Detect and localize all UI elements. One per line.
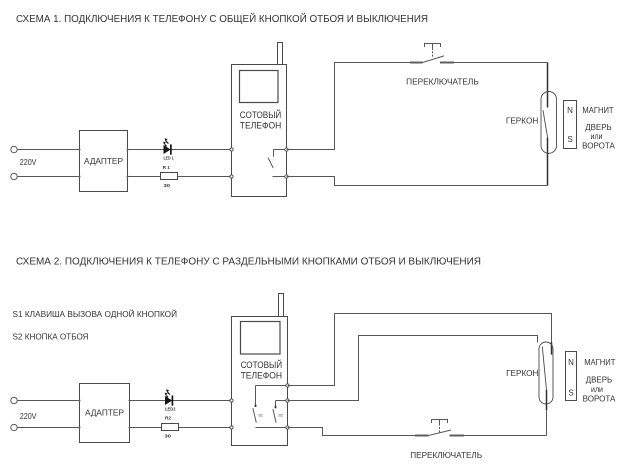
- svg-text:МАГНИТ: МАГНИТ: [584, 358, 615, 367]
- node: [230, 426, 233, 429]
- wire: [256, 427, 288, 429]
- node: [230, 399, 233, 402]
- LED D2: [165, 389, 173, 405]
- svg-text:ТЕЛЕФОН: ТЕЛЕФОН: [241, 370, 283, 380]
- svg-text:S1 КЛАВИША ВЫЗОВА ОДНОЙ КНОПКО: S1 КЛАВИША ВЫЗОВА ОДНОЙ КНОПКОЙ: [13, 310, 178, 319]
- svg-text:R 1: R 1: [163, 165, 171, 170]
- svg-text:N: N: [567, 106, 573, 115]
- svg-text:ГЕРКОН: ГЕРКОН: [506, 116, 539, 125]
- label phone 1: [240, 109, 281, 131]
- wire: [128, 149, 232, 151]
- svg-text:АДАПТЕР: АДАПТЕР: [85, 409, 124, 418]
- resistor R2: [162, 424, 179, 431]
- contact tip S2: [275, 406, 277, 409]
- phone screen 1: [240, 71, 279, 103]
- node: [286, 426, 289, 429]
- wire: [287, 63, 423, 150]
- wire: [547, 138, 549, 186]
- LED D1: [163, 138, 171, 154]
- svg-text:ВОРОТА: ВОРОТА: [583, 395, 616, 404]
- svg-text:СХЕМА 1. ПОДКЛЮЧЕНИЯ К ТЕЛЕФОН: СХЕМА 1. ПОДКЛЮЧЕНИЯ К ТЕЛЕФОНУ С ОБЩЕЙ …: [16, 12, 428, 25]
- cell phone body 2: [232, 317, 288, 446]
- wire: [415, 435, 429, 437]
- svg-text:или: или: [591, 385, 603, 394]
- label phone 2: [241, 359, 283, 381]
- node: [230, 175, 233, 178]
- svg-text:30: 30: [165, 434, 172, 439]
- terminal X2: [11, 173, 17, 179]
- wire: [547, 63, 549, 108]
- wire: [450, 435, 465, 437]
- wire: [410, 62, 423, 64]
- terminal X3: [11, 397, 17, 403]
- adapter A1: [80, 131, 128, 192]
- svg-text:СОТОВЫЙ: СОТОВЫЙ: [241, 359, 283, 370]
- label door 1: [582, 123, 615, 151]
- wire: [288, 336, 538, 401]
- wire: [288, 314, 552, 386]
- wire: [546, 390, 548, 410]
- node: [286, 399, 289, 402]
- svg-text:ГЕРКОН: ГЕРКОН: [506, 369, 539, 378]
- resistor R1: [161, 173, 178, 180]
- svg-text:N: N: [568, 358, 574, 367]
- svg-text:LED2: LED2: [165, 407, 176, 412]
- wire: [546, 404, 548, 436]
- svg-text:МАГНИТ: МАГНИТ: [582, 106, 613, 115]
- junction: [78, 399, 80, 401]
- reed capsule 1: [541, 92, 557, 154]
- node: [230, 148, 233, 151]
- switch lever 2: [429, 430, 452, 436]
- svg-text:220V: 220V: [20, 157, 37, 167]
- cell phone body 1: [232, 65, 287, 197]
- wire: [450, 435, 547, 437]
- wire: [130, 400, 232, 402]
- junction: [126, 148, 128, 150]
- junction: [78, 426, 80, 428]
- svg-text:30: 30: [164, 183, 171, 188]
- svg-text:220V: 220V: [20, 411, 37, 421]
- wire: [440, 62, 454, 64]
- wire: [130, 427, 232, 429]
- wire: [287, 177, 548, 186]
- junction: [128, 399, 130, 401]
- internal hook switch: [268, 150, 287, 177]
- pushbutton head 1: [425, 44, 441, 57]
- wire: [17, 176, 79, 178]
- node: [286, 384, 289, 387]
- wire: [17, 427, 79, 429]
- svg-text:ПЕРЕКЛЮЧАТЕЛЬ: ПЕРЕКЛЮЧАТЕЛЬ: [406, 77, 479, 86]
- junction: [78, 175, 80, 177]
- svg-text:или: или: [591, 132, 603, 141]
- wire: [551, 342, 553, 355]
- node: [285, 148, 288, 151]
- antenna 1: [278, 43, 283, 65]
- svg-text:S2 КНОПКА ОТБОЯ: S2 КНОПКА ОТБОЯ: [13, 333, 89, 342]
- wire: [17, 149, 79, 151]
- wire: [128, 176, 232, 178]
- svg-text:S: S: [568, 389, 573, 398]
- svg-text:АДАПТЕР: АДАПТЕР: [84, 157, 123, 166]
- svg-text:ПЕРЕКЛЮЧАТЕЛЬ: ПЕРЕКЛЮЧАТЕЛЬ: [410, 451, 482, 460]
- svg-text:S: S: [567, 135, 572, 144]
- internal switch S2: [273, 401, 288, 423]
- reed contact 2: [542, 347, 546, 391]
- wire: [288, 428, 429, 436]
- wire: [17, 400, 79, 402]
- switch lever 1: [423, 56, 445, 63]
- svg-text:LED 1: LED 1: [164, 156, 175, 161]
- reed capsule 2: [539, 342, 553, 404]
- junction: [128, 426, 130, 428]
- svg-text:S1: S1: [258, 414, 263, 418]
- label door 2: [583, 375, 616, 403]
- node: [285, 175, 288, 178]
- magnet 1: [564, 101, 577, 149]
- svg-text:СХЕМА 2. ПОДКЛЮЧЕНИЯ К ТЕЛЕФОН: СХЕМА 2. ПОДКЛЮЧЕНИЯ К ТЕЛЕФОНУ С РАЗДЕЛ…: [16, 256, 481, 267]
- phone screen 2: [241, 322, 281, 355]
- terminal X4: [11, 424, 17, 430]
- svg-text:R2: R2: [165, 415, 172, 420]
- svg-text:ДВЕРЬ: ДВЕРЬ: [586, 375, 612, 384]
- svg-text:СОТОВЫЙ: СОТОВЫЙ: [240, 109, 281, 120]
- terminal X1: [11, 146, 17, 152]
- contact tip S1: [255, 405, 257, 408]
- svg-text:ДВЕРЬ: ДВЕРЬ: [585, 123, 611, 132]
- svg-text:S2: S2: [278, 414, 283, 418]
- internal switch S1: [253, 386, 288, 423]
- wire: [440, 62, 548, 64]
- antenna 2: [279, 294, 284, 317]
- reed contact 1: [543, 110, 548, 137]
- adapter A2: [80, 384, 130, 443]
- svg-text:ВОРОТА: ВОРОТА: [582, 142, 615, 151]
- junction: [126, 175, 128, 177]
- junction: [78, 148, 80, 150]
- pushbutton head 2: [432, 420, 448, 433]
- magnet 2: [566, 352, 577, 401]
- svg-text:ТЕЛЕФОН: ТЕЛЕФОН: [240, 121, 281, 131]
